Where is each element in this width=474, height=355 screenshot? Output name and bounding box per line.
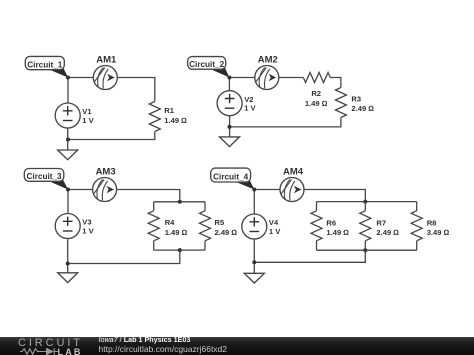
wire bbox=[229, 77, 254, 79]
ammeter AM4 bbox=[280, 167, 304, 202]
wire bbox=[253, 239, 255, 273]
svg-text:Circuit_4: Circuit_4 bbox=[213, 173, 248, 182]
wire bbox=[154, 249, 205, 251]
wire bbox=[330, 78, 341, 88]
svg-text:AM1: AM1 bbox=[96, 55, 117, 66]
wire bbox=[279, 77, 304, 79]
wire bbox=[229, 116, 231, 137]
svg-text:1 V: 1 V bbox=[82, 227, 94, 236]
CircuitLab logo: CIRCUIT word bbox=[18, 337, 83, 349]
junction bbox=[252, 260, 256, 264]
junction bbox=[66, 262, 70, 266]
node flag Circuit_1 bbox=[25, 56, 68, 77]
wire bbox=[68, 77, 93, 79]
wire bbox=[68, 132, 155, 140]
CircuitLab logo: resistor+diode doodle bbox=[20, 347, 80, 355]
svg-text:R8: R8 bbox=[427, 218, 437, 227]
svg-text:Circuit_3: Circuit_3 bbox=[27, 172, 62, 181]
wire bbox=[67, 128, 69, 150]
svg-text:Circuit_1: Circuit_1 bbox=[27, 60, 62, 69]
ground bbox=[58, 150, 78, 160]
footer bar bbox=[0, 337, 474, 355]
ground bbox=[244, 273, 264, 283]
footer url text bbox=[99, 344, 228, 354]
ammeter AM2 bbox=[255, 55, 279, 90]
wire bbox=[253, 190, 255, 215]
svg-text:V1: V1 bbox=[82, 107, 92, 116]
ground bbox=[58, 273, 78, 283]
svg-text:AM4: AM4 bbox=[283, 167, 304, 178]
junction bbox=[227, 76, 231, 80]
ground bbox=[220, 137, 240, 147]
resistor R8 bbox=[411, 202, 449, 251]
svg-text:1.49 Ω: 1.49 Ω bbox=[164, 116, 187, 125]
svg-text:AM3: AM3 bbox=[96, 167, 116, 178]
junction bbox=[363, 200, 367, 204]
svg-text:1 V: 1 V bbox=[82, 116, 94, 125]
resistor R4 bbox=[148, 202, 187, 250]
wire bbox=[317, 249, 417, 251]
junction bbox=[66, 188, 70, 192]
svg-text:V3: V3 bbox=[82, 218, 91, 227]
svg-text:R3: R3 bbox=[351, 94, 361, 103]
svg-text:2.49 Ω: 2.49 Ω bbox=[376, 228, 399, 237]
wire bbox=[68, 250, 180, 263]
wire bbox=[254, 250, 365, 262]
svg-text:R7: R7 bbox=[376, 218, 386, 227]
junction bbox=[178, 200, 182, 204]
svg-text:3.49 Ω: 3.49 Ω bbox=[427, 228, 450, 237]
voltage source V1 bbox=[55, 103, 94, 128]
resistor R5 bbox=[200, 202, 238, 250]
svg-text:R4: R4 bbox=[165, 218, 175, 227]
svg-text:1 V: 1 V bbox=[244, 104, 256, 113]
junction bbox=[66, 138, 70, 142]
ammeter AM1 bbox=[93, 55, 117, 90]
wire bbox=[228, 78, 230, 91]
junction bbox=[252, 188, 256, 192]
wire bbox=[68, 189, 93, 191]
resistor R3 bbox=[335, 88, 374, 118]
svg-text:R6: R6 bbox=[326, 218, 336, 227]
svg-text:R2: R2 bbox=[311, 89, 321, 98]
wire bbox=[117, 190, 180, 202]
svg-text:R1: R1 bbox=[164, 106, 174, 115]
resistor R7 bbox=[360, 202, 399, 251]
svg-text:2.49 Ω: 2.49 Ω bbox=[215, 228, 238, 237]
resistor R6 bbox=[311, 202, 349, 251]
svg-text:1.49 Ω: 1.49 Ω bbox=[165, 228, 188, 237]
resistor R2 bbox=[303, 73, 330, 108]
svg-text:V4: V4 bbox=[269, 218, 279, 227]
svg-text:1.49 Ω: 1.49 Ω bbox=[305, 99, 328, 108]
ammeter AM3 bbox=[93, 167, 117, 202]
svg-text:AM2: AM2 bbox=[258, 55, 278, 66]
resistor R1 bbox=[149, 102, 187, 132]
svg-text:1 V: 1 V bbox=[269, 227, 281, 236]
voltage source V3 bbox=[55, 214, 94, 239]
junction bbox=[66, 76, 70, 80]
footer title text bbox=[99, 335, 191, 344]
wire bbox=[117, 78, 155, 102]
wire bbox=[67, 78, 69, 104]
voltage source V2 bbox=[217, 91, 256, 116]
CircuitLab logo: LAB word bbox=[58, 347, 83, 355]
svg-text:R5: R5 bbox=[215, 218, 225, 227]
svg-text:2.49 Ω: 2.49 Ω bbox=[351, 104, 374, 113]
svg-text:Circuit_2: Circuit_2 bbox=[189, 60, 224, 69]
svg-text:V2: V2 bbox=[244, 95, 253, 104]
junction bbox=[228, 125, 232, 129]
wire bbox=[254, 189, 280, 191]
node flag Circuit_3 bbox=[24, 169, 68, 190]
wire bbox=[317, 201, 417, 203]
node flag Circuit_4 bbox=[211, 168, 255, 189]
junction bbox=[363, 248, 367, 252]
wire bbox=[154, 201, 205, 203]
node flag Circuit_2 bbox=[188, 57, 230, 78]
junction bbox=[178, 248, 182, 252]
voltage source V4 bbox=[242, 214, 281, 239]
wire bbox=[229, 118, 341, 127]
svg-text:1.49 Ω: 1.49 Ω bbox=[326, 228, 349, 237]
wire bbox=[304, 190, 365, 202]
wire bbox=[67, 190, 69, 214]
wire bbox=[67, 239, 69, 273]
